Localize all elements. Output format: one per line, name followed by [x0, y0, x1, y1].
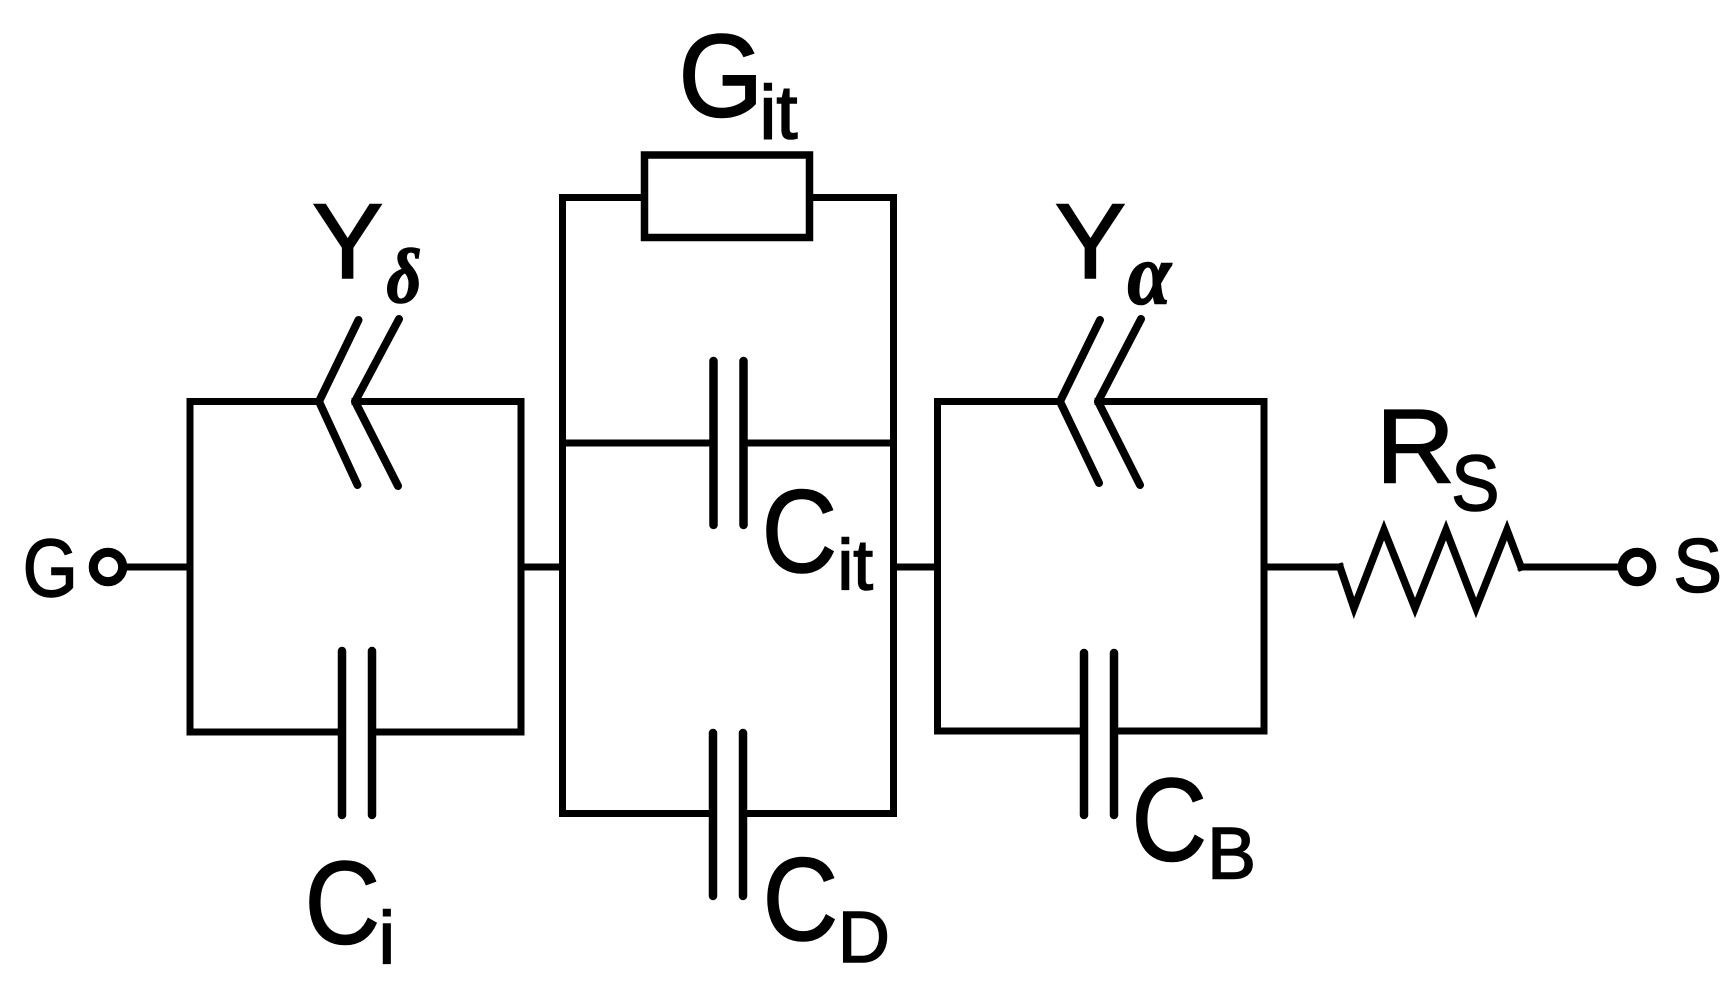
svg-text:α: α	[1128, 226, 1172, 323]
svg-text:it: it	[838, 527, 874, 606]
svg-text:S: S	[1673, 523, 1722, 608]
svg-text:G: G	[23, 523, 78, 614]
svg-text:C: C	[305, 837, 380, 969]
svg-text:δ: δ	[387, 233, 422, 319]
svg-text:i: i	[379, 897, 395, 980]
svg-text:Y: Y	[312, 181, 383, 301]
svg-text:S: S	[1451, 439, 1499, 528]
svg-text:C: C	[763, 833, 838, 965]
svg-text:B: B	[1207, 814, 1256, 895]
svg-text:D: D	[838, 898, 890, 978]
svg-text:C: C	[762, 465, 837, 597]
svg-text:Y: Y	[1055, 181, 1126, 301]
svg-text:it: it	[760, 70, 798, 155]
svg-text:C: C	[1132, 754, 1207, 886]
svg-text:G: G	[678, 11, 763, 143]
svg-text:R: R	[1376, 388, 1455, 506]
